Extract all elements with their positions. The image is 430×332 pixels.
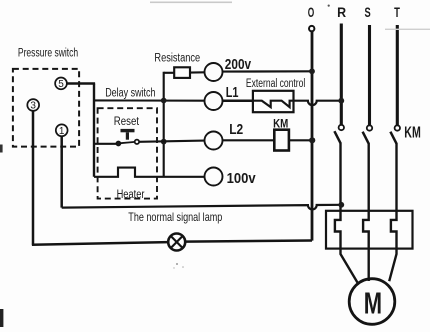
svg-text:L2: L2: [229, 121, 243, 138]
svg-text:KM: KM: [273, 116, 288, 130]
svg-text:L1: L1: [226, 84, 239, 101]
svg-text:3: 3: [30, 101, 36, 112]
svg-text:5: 5: [58, 79, 64, 90]
svg-text:200v: 200v: [225, 56, 252, 73]
svg-text:Reset: Reset: [114, 116, 140, 128]
svg-text:The normal signal lamp: The normal signal lamp: [128, 210, 222, 224]
svg-text:O: O: [308, 4, 315, 20]
svg-text:M: M: [364, 285, 382, 320]
svg-text:Heater: Heater: [117, 189, 145, 201]
svg-text:R: R: [337, 4, 346, 20]
svg-text:External control: External control: [246, 78, 305, 90]
svg-text:Resistance: Resistance: [154, 53, 200, 65]
svg-text:Pressure switch: Pressure switch: [18, 47, 78, 59]
svg-text:Delay switch: Delay switch: [105, 88, 155, 100]
svg-text:1: 1: [59, 126, 65, 137]
svg-text:T: T: [394, 4, 400, 20]
svg-text:S: S: [365, 4, 371, 20]
svg-text:100v: 100v: [227, 170, 257, 187]
svg-text:KM: KM: [404, 125, 421, 142]
